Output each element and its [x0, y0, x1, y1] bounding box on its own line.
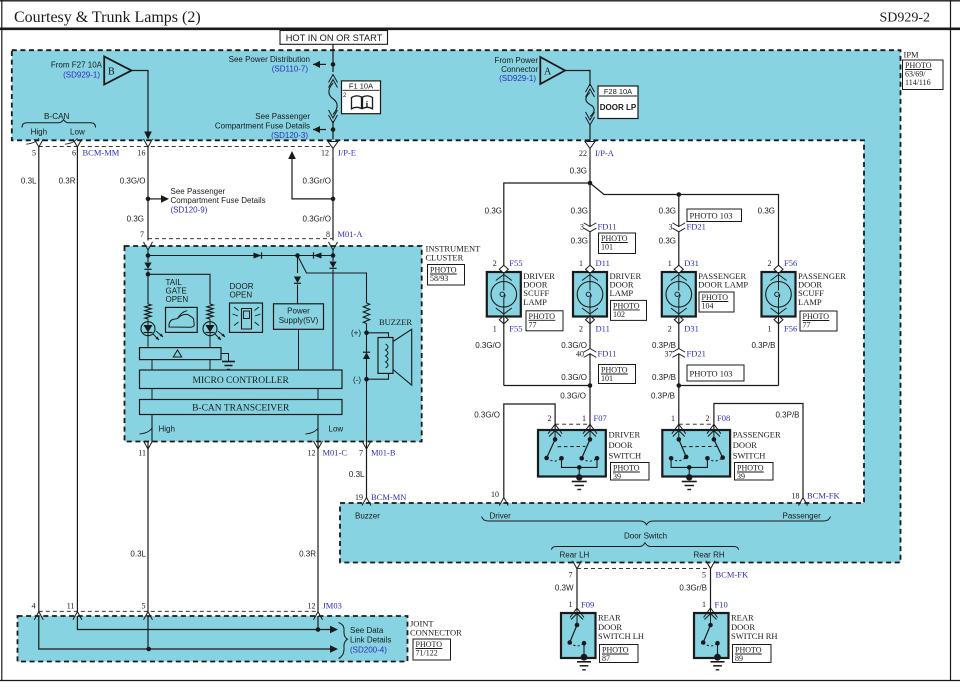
svg-text:0.3G: 0.3G: [571, 237, 588, 246]
fuse F1 element: [329, 75, 338, 83]
svg-text:HOT IN ON OR START: HOT IN ON OR START: [286, 33, 383, 43]
svg-text:0.3G: 0.3G: [758, 207, 775, 216]
diode D-bus-left (points right): [254, 253, 262, 259]
JC internal wire A (low): [77, 616, 330, 630]
branch arrow up (to SD120-9 rail): [292, 158, 333, 199]
pin 12 M01-C: [314, 441, 323, 449]
see passenger compartment fuse details (SD120-3) note: [313, 129, 326, 131]
page left border: [1, 0, 3, 681]
wire from triangle B to pin 16: [132, 71, 149, 133]
svg-text:MICRO CONTROLLER: MICRO CONTROLLER: [193, 376, 290, 386]
svg-text:89: 89: [735, 654, 743, 663]
svg-text:Rear LH: Rear LH: [560, 551, 590, 560]
diode to power supply: [297, 256, 299, 274]
bar ground: [221, 354, 229, 362]
fuse F28 label box: [598, 86, 638, 119]
JC pin 4: [34, 612, 43, 620]
passenger door switch F08: [679, 423, 714, 425]
svg-text:Buzzer: Buzzer: [355, 512, 380, 521]
svg-text:DOOR: DOOR: [733, 440, 757, 450]
svg-text:3: 3: [669, 223, 673, 232]
svg-text:5: 5: [32, 149, 36, 158]
svg-text:D11: D11: [596, 324, 610, 334]
svg-text:2: 2: [548, 414, 552, 423]
node scuff-passenger join: [677, 383, 682, 388]
connector FD21 upper pin 3: [678, 227, 680, 231]
svg-text:10: 10: [491, 490, 499, 499]
connector I/P-A pin 22 entry: [585, 142, 595, 149]
buzzer output wire to pin 7: [366, 379, 368, 441]
svg-text:0.3Gr/B: 0.3Gr/B: [679, 584, 707, 593]
svg-text:Low: Low: [329, 425, 344, 434]
triangle connector A from power connector: [540, 57, 565, 84]
wire 0.3R from pin6 to joint connector pin 11: [76, 147, 78, 612]
svg-text:2: 2: [493, 259, 497, 268]
connector link dashed line (pins 5,6,16,12): [39, 146, 333, 148]
svg-text:0.3R: 0.3R: [59, 176, 76, 185]
svg-text:BCM-MM: BCM-MM: [83, 148, 120, 158]
svg-text:18: 18: [792, 492, 800, 501]
svg-text:Driver: Driver: [490, 512, 512, 521]
svg-text:Courtesy & Trunk Lamps (2): Courtesy & Trunk Lamps (2): [14, 9, 201, 26]
svg-text:0.3L: 0.3L: [21, 176, 37, 185]
connector FD21 lower pin 37: [678, 349, 680, 353]
svg-text:i: i: [366, 101, 369, 111]
svg-text:PHOTO 103: PHOTO 103: [690, 211, 733, 221]
svg-text:0.3Gr/O: 0.3Gr/O: [303, 215, 331, 224]
wires bar to micro: [151, 360, 153, 370]
svg-text:LAMP: LAMP: [798, 297, 822, 307]
svg-text:BCM-FK: BCM-FK: [716, 570, 749, 580]
svg-text:0.3P/B: 0.3P/B: [751, 341, 775, 350]
node JC B: [146, 647, 151, 652]
svg-text:BUZZER: BUZZER: [379, 317, 412, 327]
driver door scuff lamp F55: [487, 272, 521, 317]
node scuff-driver join: [588, 383, 593, 388]
title divider: [0, 27, 960, 30]
svg-text:PHOTO 103: PHOTO 103: [690, 369, 733, 379]
svg-text:77: 77: [529, 320, 537, 329]
svg-text:1: 1: [671, 414, 675, 423]
svg-text:0.3W: 0.3W: [555, 584, 574, 593]
svg-text:(SD110-7): (SD110-7): [272, 65, 309, 74]
svg-text:0.3G/O: 0.3G/O: [475, 341, 501, 350]
svg-text:DOOR: DOOR: [609, 440, 633, 450]
svg-text:High: High: [159, 425, 175, 434]
svg-text:B: B: [108, 67, 115, 78]
resistor tailgate LED: [145, 304, 151, 319]
JC pin 11: [73, 612, 82, 620]
Low output: [317, 415, 319, 442]
svg-text:11: 11: [67, 602, 75, 611]
wire: HOT feed down to fuse F1: [332, 44, 334, 72]
wire 0.3Gr/O pin 12 I/P-E down to cluster pin 8: [332, 158, 334, 241]
photo 103 box upper: [687, 209, 742, 222]
svg-text:22: 22: [579, 149, 587, 158]
wire to door-open LED branch: [148, 274, 210, 304]
joint connector dashed link: [39, 610, 318, 612]
wire BCM pin18 to F08 pin2: [714, 404, 803, 498]
pin 6 BCM-MM: [73, 139, 82, 147]
JC pin 12 JM03: [314, 612, 323, 620]
svg-text:BCM-FK: BCM-FK: [807, 491, 840, 501]
svg-text:IPM: IPM: [904, 50, 920, 60]
svg-text:(SD120-9): (SD120-9): [171, 206, 208, 215]
pin 11 M01-C: [144, 441, 153, 449]
fuse F1 label box: [342, 81, 381, 114]
node LED branch split: [146, 272, 151, 277]
comparator bar: [140, 348, 222, 360]
node main lamp bus: [588, 181, 593, 186]
power supply box: [274, 304, 324, 330]
node: passenger fuse details tap: [331, 127, 336, 132]
buzzer resistor: [363, 303, 369, 324]
svg-text:5: 5: [702, 571, 706, 580]
svg-text:0.3G: 0.3G: [127, 215, 144, 224]
LED door: [203, 322, 217, 336]
wire 0.3L from pin5 to joint connector pin 4: [38, 147, 40, 612]
pin 16 BCM-MM: [144, 139, 153, 147]
svg-text:A: A: [544, 67, 552, 78]
svg-text:F56: F56: [784, 324, 797, 334]
svg-text:114/116: 114/116: [905, 78, 931, 87]
node: fuse details tap SD120-9: [146, 197, 151, 202]
svg-text:71/122: 71/122: [416, 649, 438, 658]
svg-text:0.3G/O: 0.3G/O: [120, 176, 146, 185]
svg-text:11: 11: [138, 449, 146, 458]
svg-text:(SD200-4): (SD200-4): [350, 646, 387, 655]
driver door lamp D11: [573, 272, 607, 317]
svg-text:F08: F08: [717, 413, 730, 423]
svg-text:DOOR LAMP: DOOR LAMP: [698, 280, 748, 290]
svg-text:From F27 10A: From F27 10A: [51, 61, 103, 70]
svg-text:SWITCH LH: SWITCH LH: [598, 631, 644, 641]
diode on micro feed: [332, 256, 334, 262]
wires below lamps: [503, 317, 505, 386]
svg-text:SWITCH RH: SWITCH RH: [731, 631, 778, 641]
svg-text:39: 39: [737, 472, 745, 481]
book/info icon in F1 box: [352, 96, 362, 109]
svg-text:(SD929-1): (SD929-1): [499, 74, 536, 83]
svg-text:B-CAN: B-CAN: [44, 112, 70, 121]
wire below fuse F28: [589, 125, 591, 142]
svg-text:0.3P/B: 0.3P/B: [651, 392, 675, 401]
BCM pin 5 rear: [706, 561, 715, 569]
svg-text:0.3L: 0.3L: [130, 550, 146, 559]
svg-text:See Passenger: See Passenger: [255, 112, 310, 121]
page top border: [0, 0, 960, 2]
svg-text:D31: D31: [684, 324, 699, 334]
node bus left: [146, 253, 151, 258]
svg-text:0.3L: 0.3L: [349, 470, 365, 479]
buzzer diode: [363, 353, 370, 360]
svg-text:DRIVER: DRIVER: [609, 430, 641, 440]
connector FD11 lower pin 40: [589, 349, 591, 353]
triangle connector B from F27: [104, 57, 131, 85]
wire pin22 to bus node: [589, 158, 591, 183]
svg-text:SWITCH: SWITCH: [609, 451, 642, 461]
svg-text:Link Details: Link Details: [350, 636, 391, 645]
tailgate open car icon: [166, 307, 198, 332]
svg-text:FD21: FD21: [687, 349, 706, 359]
node branch D31: [677, 192, 682, 197]
svg-text:See Passenger: See Passenger: [171, 187, 226, 196]
svg-text:LAMP: LAMP: [610, 288, 634, 298]
lamp bus right segment: [590, 183, 779, 272]
cluster top bus: [147, 250, 149, 256]
pin 8 M01-A: [329, 242, 338, 250]
svg-text:Compartment Fuse Details: Compartment Fuse Details: [215, 122, 310, 131]
svg-text:8: 8: [326, 230, 330, 239]
wire 0.3G/O from pin16 to cluster pin 7: [147, 147, 149, 241]
BCM pin 10: [499, 498, 508, 506]
svg-text:7: 7: [140, 230, 144, 239]
instrument cluster module box: [125, 246, 422, 442]
svg-text:FD11: FD11: [598, 222, 617, 232]
wire below fuse F1: [332, 121, 334, 140]
page bottom border: [0, 680, 960, 682]
svg-text:CONNECTOR: CONNECTOR: [410, 628, 462, 638]
svg-text:2: 2: [668, 325, 672, 334]
LED door emission arrows: [215, 334, 221, 340]
svg-text:3: 3: [580, 223, 584, 232]
svg-text:I/P-E: I/P-E: [338, 148, 356, 158]
svg-text:F07: F07: [594, 413, 607, 423]
svg-text:104: 104: [702, 302, 714, 311]
svg-text:CLUSTER: CLUSTER: [426, 253, 464, 263]
svg-text:39: 39: [613, 472, 621, 481]
BCM pin 18: [799, 498, 808, 506]
diode tailgate branch: [147, 256, 149, 263]
svg-text:0.3G: 0.3G: [571, 207, 588, 216]
MICRO CONTROLLER box: [140, 370, 343, 389]
scuff jog wires to lamp branches: [504, 385, 590, 387]
photo 101 box upper: [599, 233, 636, 254]
wire from triangle A to fuse F28: [565, 71, 590, 87]
svg-text:M01-B: M01-B: [371, 448, 396, 458]
svg-text:M01-A: M01-A: [338, 229, 364, 239]
svg-text:1: 1: [582, 414, 586, 423]
micro to bcan links: [151, 389, 153, 400]
IPM photo box: [903, 60, 944, 90]
passenger door lamp D31: [662, 272, 696, 317]
svg-text:6: 6: [72, 149, 76, 158]
svg-text:101: 101: [601, 243, 613, 252]
photo 101 box lower: [599, 365, 636, 384]
svg-text:JM03: JM03: [323, 601, 342, 611]
svg-text:1: 1: [569, 600, 573, 609]
svg-text:0.3R: 0.3R: [299, 550, 316, 559]
passenger door scuff lamp F56: [762, 272, 796, 317]
svg-text:0.3Gr/O: 0.3Gr/O: [303, 176, 331, 185]
High output: [151, 415, 153, 442]
buzzer feed wire: [298, 256, 367, 304]
svg-text:0.3G/O: 0.3G/O: [560, 392, 586, 401]
svg-text:19: 19: [355, 493, 363, 502]
svg-text:F55: F55: [509, 324, 522, 334]
svg-text:B-CAN TRANSCEIVER: B-CAN TRANSCEIVER: [192, 404, 290, 414]
svg-text:M01-C: M01-C: [323, 448, 348, 458]
svg-text:From Power: From Power: [494, 56, 538, 65]
driver door switch F07: [555, 423, 590, 425]
LED tailgate emission arrows: [153, 334, 159, 340]
pin 7 M01-B: [362, 441, 371, 449]
svg-text:(SD120-3): (SD120-3): [271, 131, 308, 140]
svg-text:F10: F10: [715, 600, 728, 610]
svg-text:SWITCH: SWITCH: [733, 451, 766, 461]
svg-text:OPEN: OPEN: [230, 291, 253, 300]
pin 7 M01-A: [144, 242, 153, 250]
resistor door LED: [207, 304, 213, 319]
svg-text:Low: Low: [70, 128, 85, 137]
node bus right: [331, 253, 336, 258]
svg-text:0.3G: 0.3G: [485, 207, 502, 216]
svg-text:7: 7: [569, 571, 573, 580]
svg-text:1: 1: [668, 259, 672, 268]
svg-text:1: 1: [702, 600, 706, 609]
svg-text:12: 12: [321, 149, 329, 158]
svg-text:0.3G: 0.3G: [659, 237, 676, 246]
node at 0.3Gr/O junction: [331, 197, 336, 202]
node: power distribution tap: [331, 62, 336, 67]
svg-text:12: 12: [308, 602, 316, 611]
svg-text:5: 5: [142, 602, 146, 611]
svg-text:40: 40: [576, 350, 584, 359]
branch wire D11: [589, 183, 591, 272]
photo 103 box lower: [687, 365, 744, 381]
branch wire D31: [678, 195, 680, 273]
svg-text:See Data: See Data: [350, 626, 384, 635]
JC photo box: [413, 639, 451, 660]
svg-text:0.3P/B: 0.3P/B: [652, 373, 676, 382]
door open icon: [230, 303, 263, 332]
svg-text:DOOR LP: DOOR LP: [600, 103, 637, 112]
joint connector box: [18, 616, 408, 662]
svg-text:0.3G/O: 0.3G/O: [561, 373, 587, 382]
svg-text:0.3G: 0.3G: [570, 167, 587, 176]
connector FD11 upper pin 3: [589, 227, 591, 231]
diode D-bus-right (points left): [314, 253, 322, 259]
svg-text:(+): (+): [351, 329, 361, 338]
svg-text:Compartment Fuse Details: Compartment Fuse Details: [171, 196, 266, 205]
JC brace: [339, 623, 348, 659]
svg-text:1: 1: [768, 325, 772, 334]
pin 5 BCM-MM: [34, 139, 43, 147]
pin 19 BCM-MN: [362, 498, 371, 506]
svg-text:Connector: Connector: [501, 65, 538, 74]
svg-text:58/93: 58/93: [430, 274, 448, 283]
svg-text:D11: D11: [596, 258, 610, 268]
svg-text:37: 37: [665, 350, 673, 359]
page right border: [950, 0, 952, 681]
svg-text:PASSENGER: PASSENGER: [733, 430, 781, 440]
svg-text:Supply(5V): Supply(5V): [279, 316, 319, 325]
svg-text:1: 1: [493, 325, 497, 334]
fuse F28 element: [586, 84, 595, 92]
Driver/Passenger brace: [482, 517, 831, 525]
svg-text:SD929-2: SD929-2: [879, 11, 930, 26]
connector I/P-E pin 12 entry: [328, 142, 338, 149]
see power distribution note: [313, 63, 326, 65]
svg-text:Power: Power: [287, 307, 310, 316]
svg-text:2: 2: [768, 259, 772, 268]
IPM/BCM shaded module region: [12, 50, 901, 562]
svg-text:4: 4: [32, 602, 36, 611]
instrument cluster photo box: [428, 265, 465, 286]
JC pin 5: [144, 612, 153, 620]
svg-text:0.3P/B: 0.3P/B: [775, 411, 799, 420]
svg-text:16: 16: [138, 149, 146, 158]
svg-text:102: 102: [613, 310, 625, 319]
svg-text:87: 87: [602, 654, 610, 663]
svg-text:0.3G: 0.3G: [659, 207, 676, 216]
node JC A: [316, 627, 321, 632]
svg-text:Rear RH: Rear RH: [694, 551, 725, 560]
svg-text:77: 77: [803, 321, 811, 330]
dashed connector group rectangle: [147, 147, 149, 239]
svg-text:OPEN: OPEN: [166, 295, 189, 304]
node bus mid: [295, 253, 300, 258]
svg-text:2: 2: [579, 325, 583, 334]
svg-text:0.3G/O: 0.3G/O: [474, 411, 500, 420]
HOT IN ON OR START box: [280, 31, 388, 45]
lamp bus left segment: [504, 183, 590, 272]
svg-text:2: 2: [706, 414, 710, 423]
svg-text:High: High: [31, 128, 47, 137]
JC internal wire B (high): [39, 616, 330, 649]
svg-text:D31: D31: [684, 258, 699, 268]
svg-text:F09: F09: [581, 600, 594, 610]
LED tailgate: [141, 322, 155, 336]
svg-text:F56: F56: [784, 258, 797, 268]
svg-text:BCM-MN: BCM-MN: [371, 492, 406, 502]
svg-text:(SD929-1): (SD929-1): [63, 71, 100, 80]
svg-text:(-): (-): [353, 376, 361, 385]
svg-text:12: 12: [308, 449, 316, 458]
svg-text:F55: F55: [509, 258, 522, 268]
BCM-FK bottom dashed link: [577, 567, 711, 569]
svg-text:FD21: FD21: [687, 222, 706, 232]
svg-text:FD11: FD11: [598, 349, 617, 359]
B-CAN TRANSCEIVER box: [140, 400, 343, 415]
buzzer coil + horn: [367, 333, 389, 338]
svg-text:101: 101: [601, 374, 613, 383]
BCM pin 7 rear: [573, 561, 582, 569]
svg-text:LAMP: LAMP: [523, 297, 547, 307]
svg-text:F28 10A: F28 10A: [604, 87, 632, 96]
svg-text:See Power Distribution: See Power Distribution: [229, 55, 310, 64]
svg-text:I/P-A: I/P-A: [595, 148, 615, 158]
svg-text:Passenger: Passenger: [783, 512, 822, 521]
wire BCM pin10 to F07 pin2: [504, 404, 555, 498]
svg-text:7: 7: [359, 449, 363, 458]
Rear LH/RH brace: [552, 543, 739, 550]
svg-text:1: 1: [579, 259, 583, 268]
svg-text:F1 10A: F1 10A: [349, 81, 373, 90]
svg-text:Door Switch: Door Switch: [624, 532, 667, 541]
